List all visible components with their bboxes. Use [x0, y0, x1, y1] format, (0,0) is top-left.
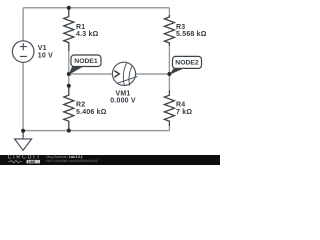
wire meter row left [69, 73, 113, 75]
svg-text:10 V: 10 V [38, 52, 53, 59]
banner logo zigzag [8, 160, 22, 163]
wire top-right corner to R3 [168, 8, 170, 15]
resistor R3 [164, 15, 174, 46]
wire meter row right [136, 73, 170, 75]
wire left rail lower segment [22, 62, 24, 130]
ground [15, 131, 32, 151]
node B junction at NODE2 [167, 72, 171, 76]
node A junction at NODE1 [67, 72, 71, 76]
svg-text:0.000 V: 0.000 V [110, 98, 136, 105]
svg-text:R2: R2 [76, 102, 85, 109]
junction dot above R2 [67, 84, 71, 88]
svg-text:V1: V1 [38, 45, 47, 52]
node NODE2 flag [169, 56, 201, 75]
banner logo LAB chip [27, 160, 41, 164]
banner background [0, 155, 220, 165]
svg-text:R1: R1 [76, 24, 85, 31]
resistor R1 [64, 8, 74, 51]
svg-text:R3: R3 [176, 24, 185, 31]
wire middle branch R1 to node1 [68, 51, 70, 86]
wire bottom rail [23, 130, 169, 132]
wire top rail [23, 7, 169, 9]
svg-text:http://circuitlab.com/c6d8h6b/: http://circuitlab.com/c6d8h6b/6v5a8 [46, 159, 98, 163]
junction dot top of R1 [67, 6, 71, 10]
svg-text:7 kΩ: 7 kΩ [176, 109, 192, 116]
svg-text:R4: R4 [176, 102, 185, 109]
wire R4 to bottom-right corner [168, 126, 170, 131]
wire left rail upper segment [22, 8, 24, 41]
resistor R4 [164, 90, 174, 126]
svg-text:5.568 kΩ: 5.568 kΩ [176, 31, 207, 38]
svg-text:NODE2: NODE2 [175, 60, 199, 67]
node NODE1 flag [69, 55, 101, 75]
svg-text:NODE1: NODE1 [74, 58, 98, 65]
svg-text:VM1: VM1 [116, 90, 131, 97]
junction dot bottom of R2 [67, 129, 71, 133]
resistor R2 [64, 86, 74, 131]
voltage source V1 [12, 41, 34, 63]
svg-text:CIRCUIT: CIRCUIT [8, 154, 42, 160]
wire right branch R3 to R4 [168, 46, 170, 91]
svg-text:4.3 kΩ: 4.3 kΩ [76, 31, 99, 38]
svg-text:5.406 kΩ: 5.406 kΩ [76, 109, 107, 116]
junction dot ground corner [21, 129, 25, 133]
svg-text:LAB: LAB [28, 160, 36, 164]
voltmeter VM1 [112, 62, 137, 86]
